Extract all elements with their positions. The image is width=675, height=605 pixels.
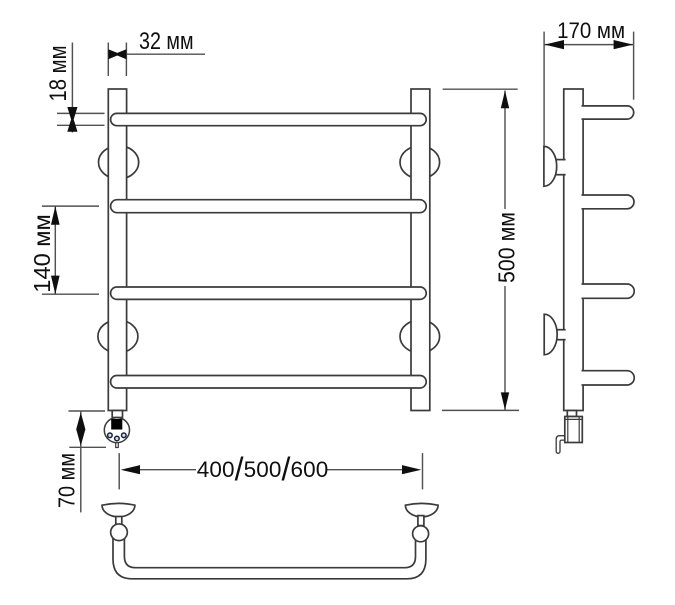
heating element contact pin left <box>108 433 113 438</box>
dim 32mm bowtie arrows <box>108 49 126 59</box>
svg-text:140 мм: 140 мм <box>29 214 55 293</box>
svg-text:500 мм: 500 мм <box>493 212 519 283</box>
svg-text:32 мм: 32 мм <box>139 28 194 55</box>
bottom view right neck <box>418 516 424 526</box>
side view power cable <box>556 436 565 454</box>
side view heater neck <box>567 411 576 417</box>
wall bracket rosette top-left <box>99 146 139 179</box>
heating element neck <box>112 411 122 418</box>
dim 18mm hourglass arrows <box>67 107 77 132</box>
side view rung stub 4 <box>582 371 635 385</box>
svg-text:170 мм: 170 мм <box>557 18 625 43</box>
dim 140mm top tick <box>42 205 99 207</box>
dim 32mm leader line <box>126 53 205 55</box>
dim 18mm bottom tick <box>57 124 105 126</box>
dim 500mm up arrow <box>501 91 509 109</box>
dim width right extension line <box>422 453 424 489</box>
wall bracket rosette top-right <box>400 146 440 179</box>
bottom view right ball joint <box>413 526 429 542</box>
bottom view right wall cup <box>405 503 438 516</box>
horizontal rung 1 <box>111 113 427 125</box>
dim 170mm right arrow <box>614 40 633 49</box>
dim width right arrow <box>402 465 421 474</box>
wall bracket rosette bottom-left <box>98 320 138 353</box>
heating element bottom pin <box>116 443 119 448</box>
horizontal rung 3 <box>111 287 427 299</box>
dim 170mm right extension line <box>633 32 635 100</box>
bottom view left neck <box>116 517 122 526</box>
dim 140mm bottom tick <box>42 293 99 295</box>
dim 500mm bottom tick <box>442 409 519 411</box>
dim 70mm bottom tick <box>69 446 106 448</box>
dim 500mm down arrow <box>501 392 509 410</box>
dim 140mm down arrow <box>51 276 60 295</box>
right vertical collector tube <box>411 89 430 411</box>
dim 500mm top tick <box>443 88 518 90</box>
horizontal rung 4 <box>111 376 427 389</box>
heating element black plug <box>111 419 122 430</box>
dim 70mm diamond arrow <box>76 413 85 446</box>
side view heater body <box>565 417 583 443</box>
wall bracket rosette bottom-right <box>400 320 440 353</box>
dim 32mm left extension line <box>107 43 109 77</box>
dim 32mm right extension line <box>125 43 127 77</box>
dim 140mm up arrow <box>51 206 60 225</box>
dim width line left segment <box>138 469 196 471</box>
bottom view tube inner contour <box>124 536 415 568</box>
left vertical collector tube <box>108 89 126 411</box>
dim width line right segment <box>327 469 404 471</box>
dim 140mm vertical line <box>54 206 56 294</box>
dim 70mm vertical line <box>80 411 82 512</box>
dim 500mm line lower segment <box>504 286 506 410</box>
dim 170mm left extension line <box>543 32 545 146</box>
heating element contact pin middle <box>115 436 120 441</box>
heating element body circle <box>104 418 129 443</box>
svg-text:18 мм: 18 мм <box>45 46 72 102</box>
dim 170mm line <box>544 44 634 46</box>
side view vertical tube <box>564 89 583 411</box>
dim 170mm left arrow <box>545 40 564 49</box>
bottom view left wall cup <box>102 503 135 516</box>
side view wall mount bottom <box>544 314 565 355</box>
svg-text:70 мм: 70 мм <box>54 453 80 508</box>
dim width left extension line <box>118 453 120 489</box>
dim 18mm vertical line <box>71 43 73 133</box>
heating element contact pin right <box>122 433 127 438</box>
side view heater body inner lines <box>567 417 569 443</box>
bottom view left ball joint <box>111 524 128 541</box>
dim width left arrow <box>121 465 140 474</box>
side view rung stub 2 <box>582 195 635 209</box>
side view rung stub 3 <box>582 284 635 298</box>
bottom view tube outer contour <box>113 536 426 579</box>
side view wall mount top <box>544 146 566 186</box>
dim 70mm top tick <box>68 410 105 412</box>
dim 500mm line upper segment <box>504 91 506 209</box>
horizontal rung 2 <box>111 200 427 213</box>
side view rung stub 1 <box>582 106 634 119</box>
dim 18mm top tick <box>57 112 105 114</box>
